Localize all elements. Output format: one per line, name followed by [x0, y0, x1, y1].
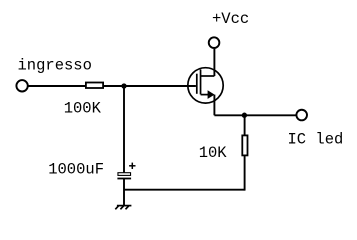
- node N1: [121, 83, 126, 88]
- transistor Q1 drain link: [201, 75, 215, 77]
- wire bottom horizontal: [124, 189, 245, 191]
- wire up to R2 bottom: [244, 156, 246, 191]
- transistor Q1 source link: [201, 94, 209, 96]
- terminal IC led: [296, 110, 307, 121]
- capacitor C1 top plate: [118, 173, 131, 176]
- wire R1 to gate: [104, 85, 196, 87]
- resistor R2: [242, 135, 247, 155]
- svg-text:100K: 100K: [64, 99, 102, 117]
- svg-text:ingresso: ingresso: [18, 56, 92, 74]
- transistor Q1 gate bar: [196, 74, 198, 94]
- resistor R1: [86, 83, 103, 89]
- ground: [115, 206, 131, 210]
- capacitor C1 plus sign: [129, 163, 135, 169]
- terminal +Vcc: [209, 37, 220, 48]
- transistor Q1 source arrow: [208, 90, 215, 99]
- wire source row to IC led: [214, 114, 296, 116]
- wire R2 top to N2: [244, 115, 246, 136]
- wire source down: [213, 95, 215, 116]
- terminal ingresso: [16, 80, 27, 91]
- wire C1 to ground: [123, 179, 125, 206]
- svg-text:+Vcc: +Vcc: [212, 10, 249, 28]
- svg-text:IC led: IC led: [288, 130, 344, 148]
- node N2: [242, 113, 247, 118]
- svg-text:10K: 10K: [199, 144, 228, 162]
- wire Vcc to drain: [213, 49, 215, 76]
- svg-text:1000uF: 1000uF: [48, 160, 104, 178]
- transistor Q1 body: [188, 68, 223, 103]
- wire N1 down to C1: [123, 86, 125, 172]
- transistor Q1 channel bar: [200, 70, 202, 95]
- wire ingresso to R1: [28, 85, 86, 87]
- capacitor C1 bottom plate: [117, 178, 131, 180]
